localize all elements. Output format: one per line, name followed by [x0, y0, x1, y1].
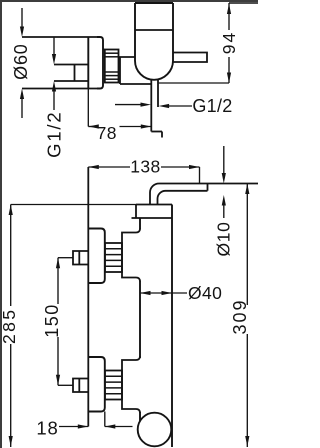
label G1/2 right [192, 96, 232, 116]
upper bracket coupling flange [122, 229, 140, 282]
label G1/2 left rotated [43, 111, 64, 158]
svg-text:150: 150 [42, 303, 62, 338]
label 78 [97, 123, 117, 143]
spout (top view) [173, 53, 207, 63]
svg-text:138: 138 [130, 156, 160, 176]
dim 78 line and arrows [88, 89, 151, 129]
lower bracket nut ribbed [105, 371, 122, 400]
leader arrow to rod left [115, 103, 151, 107]
body column [140, 205, 172, 448]
dim 94 line and arrows [227, 3, 231, 83]
wall plate (escutcheon, side) [88, 37, 103, 89]
dim Ø10 arrow up [222, 195, 226, 218]
label 138 [130, 156, 160, 176]
svg-text:309: 309 [230, 298, 250, 334]
outlet ball [138, 413, 172, 447]
left border frame [0, 0, 2, 448]
label 18 [36, 418, 58, 439]
dim 94 extension bottom [159, 82, 229, 84]
svg-text:285: 285 [0, 308, 19, 344]
coupling flange between nut and body [119, 57, 152, 84]
label Ø40 [188, 283, 222, 303]
upper bracket wall plate [88, 229, 105, 284]
supply stub pipe G1/2 [54, 65, 88, 82]
dim Ø10 arrow down [222, 146, 226, 184]
svg-text:G1/2: G1/2 [43, 111, 64, 158]
upper bracket supply stub [73, 251, 88, 265]
svg-text:78: 78 [97, 123, 117, 143]
dim Ø60 arrow up [20, 89, 24, 119]
label 94 [219, 31, 239, 54]
svg-text:Ø60: Ø60 [11, 43, 31, 79]
dim 18 extension verticals [88, 412, 105, 427]
dim Ø60 extension line top [22, 36, 100, 38]
label Ø60 [11, 43, 31, 79]
dim Ø40 leader with arrows [140, 291, 187, 295]
mixer body (top view, U shape) [135, 3, 173, 80]
upper bracket nut ribbed [105, 243, 122, 272]
top border frame [0, 0, 258, 2]
lower bracket coupling flange [122, 356, 140, 413]
svg-text:Ø10: Ø10 [214, 222, 234, 257]
svg-text:18: 18 [36, 418, 58, 439]
mounting nut ribbed (top view) [103, 50, 119, 83]
dim G1/2 arrow up [52, 81, 56, 110]
leader G1/2 right with arrow [159, 104, 192, 108]
upper bracket center extension [58, 257, 73, 259]
wall line (long vertical) [87, 167, 89, 427]
shower outlet rod [151, 80, 162, 138]
dim 285 line and arrows [9, 205, 13, 448]
shower pipe elbow [150, 184, 258, 205]
label Ø10 rotated [214, 222, 234, 257]
dim 138 line and arrows [88, 165, 199, 184]
label 285 rotated [0, 308, 19, 344]
svg-text:Ø40: Ø40 [188, 283, 222, 303]
dim 150 line and arrows [56, 258, 60, 386]
dim 18 line and arrows [59, 424, 133, 428]
label 150 rotated [42, 303, 62, 338]
dim 94 extension top [229, 2, 258, 4]
dim 309 line and arrows [245, 184, 249, 448]
svg-text:94: 94 [219, 31, 239, 54]
lower bracket center extension [58, 384, 73, 386]
dim G1/2 arrow down [52, 37, 56, 65]
body cap (front view) [132, 205, 173, 219]
dim Ø60 extension line bottom [22, 88, 100, 90]
svg-text:G1/2: G1/2 [192, 96, 232, 116]
dim Ø60 arrow down [20, 8, 24, 37]
body top extension line to 285 [11, 204, 136, 206]
label 309 rotated [230, 298, 250, 334]
lower bracket supply stub [73, 379, 88, 393]
lower bracket wall plate [88, 357, 105, 412]
